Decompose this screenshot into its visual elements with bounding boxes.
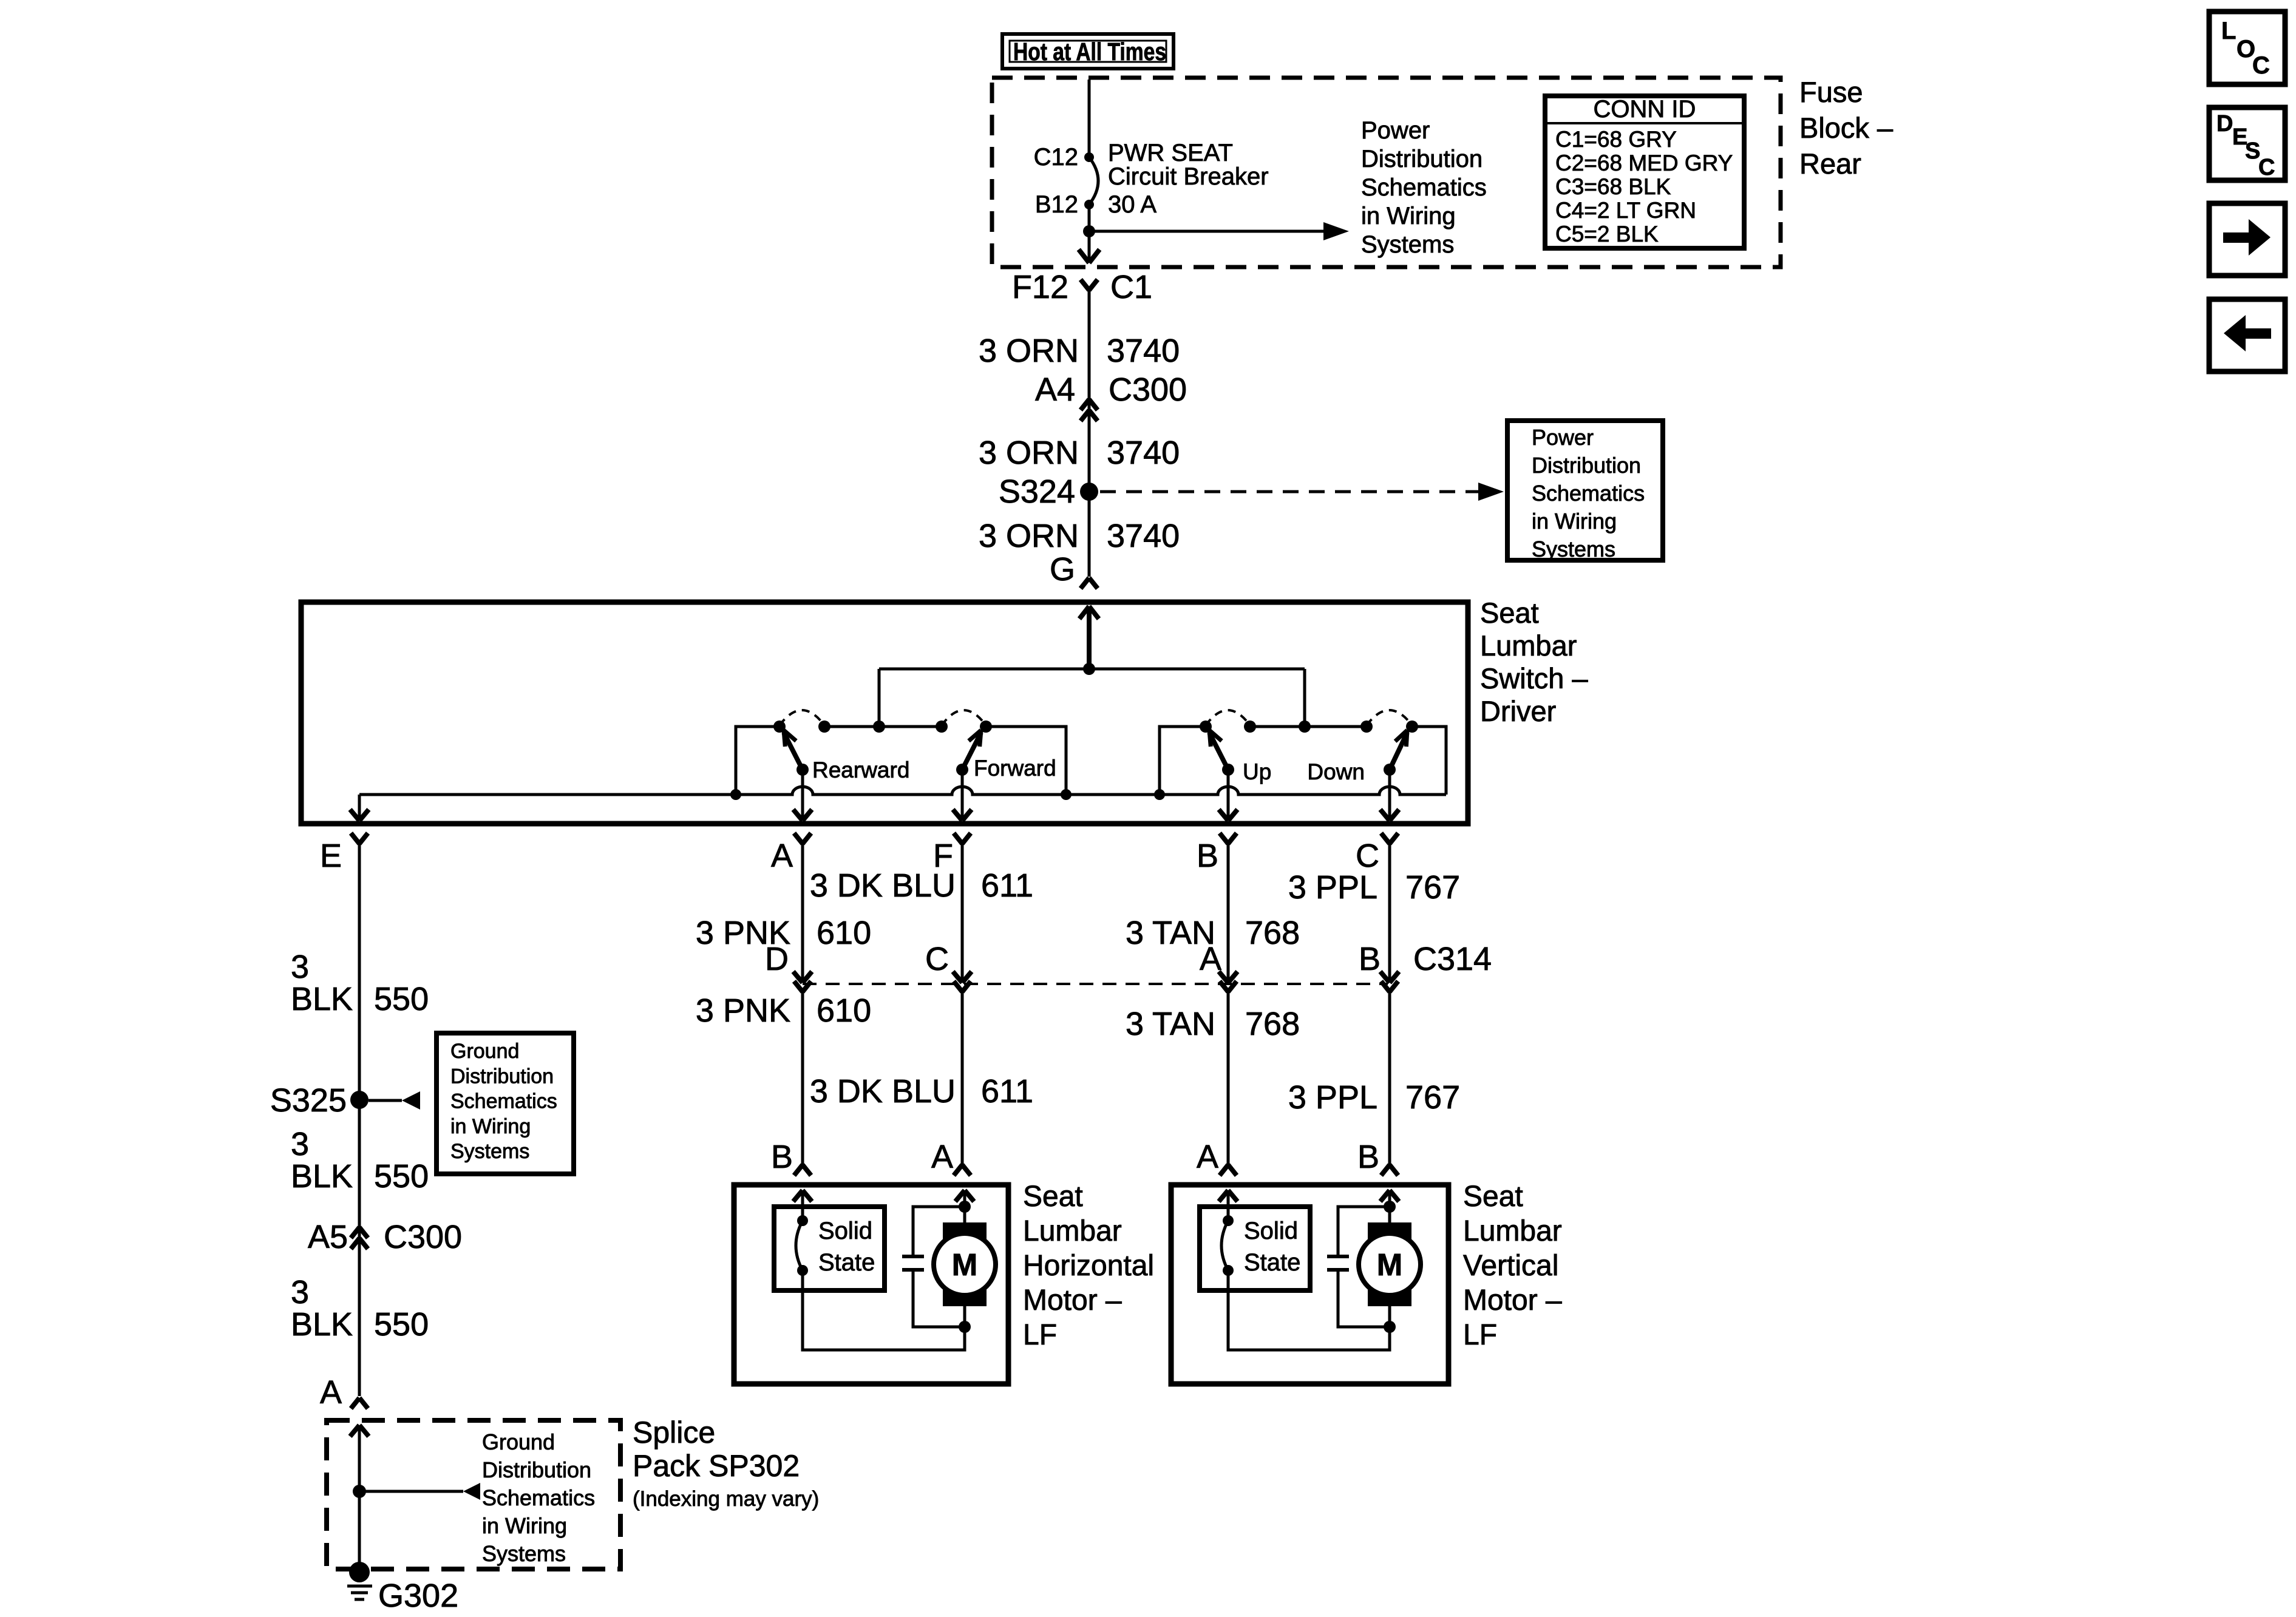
svg-text:Distribution: Distribution [1532,453,1641,478]
svg-text:S324: S324 [999,473,1075,510]
svg-text:Solid: Solid [818,1218,872,1244]
svg-text:A: A [931,1139,953,1175]
svg-text:Switch –: Switch – [1480,662,1588,694]
svg-text:LF: LF [1023,1319,1057,1351]
svg-text:BLK: BLK [291,981,353,1017]
svg-text:Systems: Systems [1361,231,1454,258]
svg-text:(Indexing may vary): (Indexing may vary) [633,1487,819,1511]
svg-text:Schematics: Schematics [450,1090,557,1113]
svg-text:3 ORN: 3 ORN [979,435,1079,471]
svg-text:in Wiring: in Wiring [450,1115,531,1138]
svg-text:A4: A4 [1035,371,1075,408]
svg-text:Circuit Breaker: Circuit Breaker [1108,163,1269,190]
svg-text:3 DK BLU: 3 DK BLU [810,867,956,904]
svg-text:Power: Power [1361,117,1430,144]
svg-text:CONN ID: CONN ID [1594,96,1696,123]
svg-text:3: 3 [291,949,309,985]
svg-text:Pack SP302: Pack SP302 [633,1449,800,1483]
svg-text:B: B [1357,1139,1379,1175]
svg-text:C3=68 BLK: C3=68 BLK [1555,174,1671,199]
svg-text:Seat: Seat [1463,1181,1523,1213]
svg-text:L: L [2221,18,2236,44]
svg-text:Distribution: Distribution [450,1065,554,1088]
svg-text:D: D [765,941,789,977]
svg-text:in Wiring: in Wiring [1532,509,1617,534]
svg-text:550: 550 [374,1158,429,1195]
svg-text:Systems: Systems [482,1541,566,1566]
svg-text:A: A [1197,1139,1218,1175]
svg-text:767: 767 [1405,869,1460,906]
svg-text:Motor –: Motor – [1463,1284,1562,1317]
svg-text:Seat: Seat [1023,1181,1083,1213]
svg-text:B: B [771,1139,793,1175]
svg-text:Lumbar: Lumbar [1480,629,1577,662]
svg-text:BLK: BLK [291,1306,353,1343]
svg-text:Up: Up [1243,759,1271,784]
svg-text:C: C [925,941,949,977]
svg-text:Schematics: Schematics [1532,481,1645,506]
svg-text:Down: Down [1307,759,1365,784]
svg-text:Power: Power [1532,425,1594,450]
svg-text:Lumbar: Lumbar [1463,1215,1562,1247]
svg-text:Solid: Solid [1244,1218,1298,1244]
svg-text:A: A [771,838,793,874]
svg-text:3 ORN: 3 ORN [979,333,1079,369]
svg-text:C1=68 GRY: C1=68 GRY [1555,127,1677,152]
svg-text:Hot at All Times: Hot at All Times [1013,38,1166,66]
svg-text:3740: 3740 [1107,518,1180,554]
svg-text:Ground: Ground [482,1429,555,1454]
svg-text:in Wiring: in Wiring [482,1513,567,1538]
svg-text:State: State [818,1249,875,1276]
svg-text:B: B [1359,941,1381,977]
svg-text:M: M [1377,1247,1402,1282]
svg-text:768: 768 [1245,915,1300,951]
svg-text:S325: S325 [270,1082,347,1119]
svg-text:G: G [1050,551,1075,588]
svg-text:C4=2 LT GRN: C4=2 LT GRN [1555,198,1696,223]
svg-text:C: C [2258,155,2275,180]
svg-text:C314: C314 [1413,941,1492,977]
svg-text:Distribution: Distribution [1361,146,1483,172]
svg-text:3 ORN: 3 ORN [979,518,1079,554]
svg-text:Systems: Systems [1532,537,1615,561]
svg-text:Distribution: Distribution [482,1457,591,1482]
svg-text:Block –: Block – [1799,112,1894,144]
svg-text:3740: 3740 [1107,333,1180,369]
svg-text:3 PPL: 3 PPL [1288,869,1377,906]
svg-text:Forward: Forward [974,756,1056,781]
svg-text:610: 610 [817,992,871,1029]
svg-text:3 PPL: 3 PPL [1288,1079,1377,1116]
svg-text:550: 550 [374,1306,429,1343]
svg-text:Fuse: Fuse [1799,76,1863,108]
svg-text:Systems: Systems [450,1140,529,1163]
svg-text:Driver: Driver [1480,695,1556,727]
svg-text:G302: G302 [378,1578,458,1614]
svg-text:Motor –: Motor – [1023,1284,1122,1317]
svg-text:3: 3 [291,1274,309,1310]
svg-text:Ground: Ground [450,1040,519,1063]
svg-text:C2=68 MED GRY: C2=68 MED GRY [1555,151,1733,175]
svg-text:Schematics: Schematics [1361,174,1487,201]
svg-text:610: 610 [817,915,871,951]
svg-text:767: 767 [1405,1079,1460,1116]
svg-text:M: M [952,1247,977,1282]
svg-text:3 PNK: 3 PNK [696,992,790,1029]
svg-text:D: D [2216,111,2233,137]
svg-text:A: A [320,1374,342,1411]
svg-text:C: C [1356,838,1379,874]
svg-text:3 TAN: 3 TAN [1126,1006,1215,1042]
svg-text:Rear: Rear [1799,147,1861,180]
svg-text:F12: F12 [1012,269,1068,305]
svg-text:State: State [1244,1249,1300,1276]
svg-text:Lumbar: Lumbar [1023,1215,1122,1247]
svg-text:in Wiring: in Wiring [1361,203,1456,229]
svg-text:3 DK BLU: 3 DK BLU [810,1073,956,1110]
svg-text:30 A: 30 A [1108,191,1156,218]
svg-text:A: A [1200,941,1221,977]
svg-text:B: B [1197,838,1218,874]
svg-text:Vertical: Vertical [1463,1250,1558,1282]
svg-text:C300: C300 [384,1219,462,1255]
svg-text:Rearward: Rearward [812,758,909,782]
svg-text:BLK: BLK [291,1158,353,1195]
svg-text:C1: C1 [1110,269,1152,305]
svg-text:3: 3 [291,1126,309,1162]
svg-text:Splice: Splice [633,1415,715,1449]
svg-text:C: C [2252,52,2270,79]
svg-text:Schematics: Schematics [482,1485,595,1510]
svg-text:A5: A5 [308,1219,348,1255]
svg-text:E: E [320,838,342,874]
svg-text:550: 550 [374,981,429,1017]
svg-text:LF: LF [1463,1319,1497,1351]
svg-text:C5=2 BLK: C5=2 BLK [1555,222,1659,246]
svg-text:Seat: Seat [1480,597,1539,629]
svg-text:611: 611 [981,867,1033,904]
svg-text:C300: C300 [1109,371,1187,408]
svg-text:B12: B12 [1035,191,1078,218]
svg-text:C12: C12 [1034,144,1078,171]
svg-text:768: 768 [1245,1006,1300,1042]
svg-text:Horizontal: Horizontal [1023,1250,1154,1282]
svg-text:3740: 3740 [1107,435,1180,471]
svg-text:611: 611 [981,1073,1033,1110]
svg-text:PWR SEAT: PWR SEAT [1108,140,1233,166]
